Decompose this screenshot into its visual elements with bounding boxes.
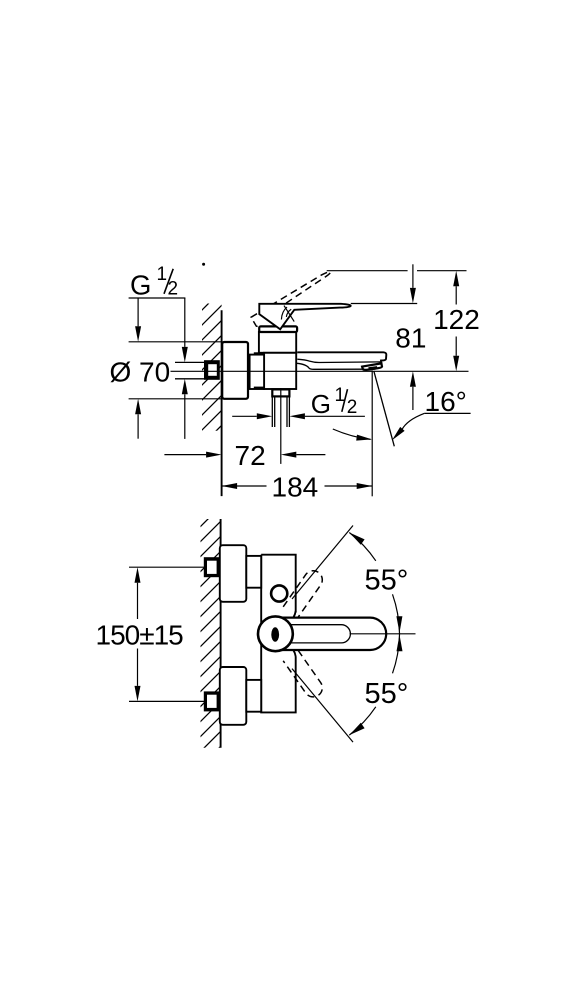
svg-text:150±15: 150±15 — [96, 619, 184, 650]
svg-text:1: 1 — [157, 264, 168, 285]
svg-text:72: 72 — [235, 440, 266, 471]
svg-text:2: 2 — [168, 279, 179, 300]
svg-text:122: 122 — [433, 304, 480, 335]
svg-text:81: 81 — [395, 323, 426, 354]
svg-text:2: 2 — [347, 397, 358, 418]
svg-text:55°: 55° — [365, 678, 409, 710]
svg-text:Ø 70: Ø 70 — [110, 357, 171, 388]
svg-text:G: G — [130, 269, 151, 300]
svg-text:16°: 16° — [425, 386, 467, 417]
svg-text:G: G — [311, 389, 331, 419]
svg-text:184: 184 — [272, 471, 319, 502]
svg-text:55°: 55° — [365, 565, 409, 597]
